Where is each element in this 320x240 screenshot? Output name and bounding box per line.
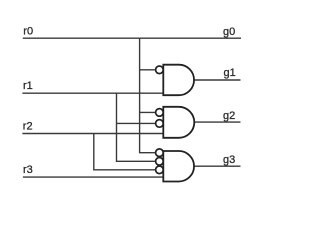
inverter bubble U3 input A xyxy=(156,149,164,157)
wire r3 to U3 input D xyxy=(23,176,163,178)
svg-text:g1: g1 xyxy=(224,67,236,79)
svg-text:r0: r0 xyxy=(23,25,33,37)
wire r0 to g0 xyxy=(23,37,241,39)
wire U3 output to g3 xyxy=(194,165,241,167)
svg-text:g0: g0 xyxy=(223,26,235,38)
AND gate U2 (g2 = r2 AND NOT r0 AND NOT r1) xyxy=(163,107,194,138)
wire r2 to U2 input C xyxy=(22,133,163,135)
svg-text:r3: r3 xyxy=(23,164,33,176)
svg-text:r2: r2 xyxy=(23,121,33,133)
wire r1 stub to U2 bubble 2 xyxy=(117,122,157,124)
wire U1 output to g1 xyxy=(194,79,241,81)
wire r0 stub to U2 bubble 1 xyxy=(140,111,156,113)
AND gate U1 (g1 = r1 AND NOT r0) xyxy=(163,65,194,96)
inverter bubble U3 input B xyxy=(156,158,164,166)
wire r1 to U1 input B xyxy=(22,92,163,94)
svg-text:g3: g3 xyxy=(223,154,235,166)
svg-text:g2: g2 xyxy=(223,110,235,122)
wire r2 branch vertical to U3 bubble 3 xyxy=(94,134,156,170)
AND gate U3 (g3 = r3 AND NOT r0 AND NOT r1 AND NOT r2) xyxy=(163,151,194,182)
wire r0 branch vertical to U3 bubble 1 xyxy=(140,38,156,153)
wire r0 stub to U1 bubble xyxy=(140,69,156,71)
inverter bubble U3 input C xyxy=(156,166,164,174)
svg-text:r1: r1 xyxy=(23,80,33,92)
inverter bubble U2 input A xyxy=(156,109,164,117)
inverter bubble U2 input B xyxy=(156,120,164,128)
inverter bubble U1 input A xyxy=(156,66,164,74)
wire r1 branch vertical to U3 bubble 2 xyxy=(117,93,157,161)
wire U2 output to g2 xyxy=(194,121,241,123)
